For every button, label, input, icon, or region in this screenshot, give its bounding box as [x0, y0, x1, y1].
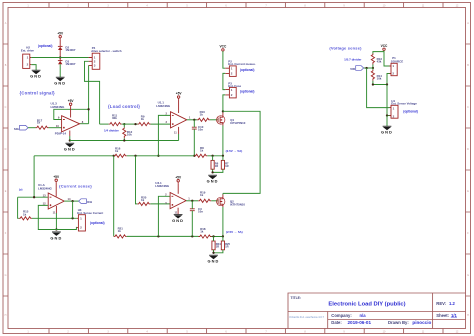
resistor R14 [371, 68, 382, 81]
junction feedback/sense line [157, 155, 159, 157]
capacitor C10 [192, 125, 204, 132]
svg-text:1k: 1k [23, 212, 27, 216]
wire drain bus to Q2 [223, 111, 260, 193]
connector H2 Ext. drive [21, 46, 34, 69]
svg-text:IXTH75N10: IXTH75N10 [230, 203, 245, 207]
ground (U1.A) [50, 232, 62, 241]
svg-text:Company:: Company: [331, 313, 351, 318]
wire U1.1 V- to ground rail [178, 134, 180, 141]
resistor R13 [371, 54, 382, 65]
pin U3.1 V+ [177, 183, 179, 194]
pin U1.3 V+ [70, 107, 72, 118]
svg-text:1R: 1R [225, 164, 228, 168]
resistor R19 [198, 191, 211, 203]
svg-text:14: 14 [68, 197, 71, 201]
wire sense line left branch to U1.A pin13 [33, 156, 35, 197]
zone numbers top [27, 4, 459, 7]
svg-text:1k: 1k [118, 229, 122, 233]
svg-text:pinoccio: pinoccio [412, 320, 431, 325]
junction R14 bottom [372, 83, 374, 85]
svg-text:Ext. Current measu.: Ext. Current measu. [228, 62, 256, 66]
svg-text:1R: 1R [216, 244, 219, 248]
svg-text:Electronic Load DIY (public): Electronic Load DIY (public) [328, 301, 405, 307]
svg-text:TITLE:: TITLE: [291, 296, 302, 300]
wire Q1 drain node [222, 111, 224, 112]
svg-text:GND: GND [172, 218, 184, 223]
resistor R17 [36, 118, 49, 129]
svg-text:Ext. Sense Current: Ext. Sense Current [77, 211, 103, 215]
ground (Q1 shunt) [207, 175, 219, 183]
pin Q1 drain [222, 113, 224, 118]
svg-text:(optional): (optional) [240, 68, 255, 72]
svg-text:1R: 1R [215, 164, 218, 168]
svg-text:LM324NG: LM324NG [38, 186, 53, 190]
wire C3 leads [191, 201, 193, 237]
svg-text:GND: GND [208, 259, 220, 264]
svg-text:+5V: +5V [53, 175, 60, 179]
svg-text:G: G [467, 274, 469, 277]
svg-text:30k: 30k [112, 116, 117, 120]
svg-text:1k: 1k [37, 121, 41, 125]
junction output/C3 [191, 200, 193, 202]
power +5V (U3.1) [175, 175, 182, 183]
border zone ticks top [49, 3, 443, 8]
junction shunt R7/source [222, 155, 224, 157]
svg-text:(2.5V → 5A): (2.5V → 5A) [226, 149, 243, 153]
svg-text:+5V: +5V [176, 92, 183, 96]
svg-text:GND: GND [207, 179, 219, 184]
svg-text:(v): (v) [19, 187, 23, 191]
svg-text:1k: 1k [141, 117, 145, 121]
transistor Q1 [217, 116, 246, 125]
pin U1.1 V+ [178, 100, 180, 113]
junction R15/output feedback [71, 217, 73, 219]
svg-text:{Control signal}: {Control signal} [20, 90, 56, 95]
junction bottom/C3 [191, 235, 193, 237]
svg-text:Sheet:: Sheet: [436, 313, 449, 318]
svg-text:(Voltage sense): (Voltage sense) [329, 46, 362, 51]
wire output to H3 pin1 level [72, 201, 74, 218]
zone numbers bottom [27, 330, 459, 333]
svg-text:VCC: VCC [381, 44, 388, 48]
wire down to R15 [18, 197, 19, 218]
svg-text:VCC: VCC [220, 44, 227, 48]
junction sense/R20 branch [134, 155, 136, 157]
TITLE BLOCK [288, 293, 466, 329]
wire Q2 source to shunt [222, 207, 224, 237]
ground (Q2 shunt) [208, 255, 220, 263]
resistor R25 [221, 241, 230, 250]
resistor R9 [138, 115, 151, 126]
global label SIG [14, 125, 28, 130]
wire C10 leads [193, 120, 195, 156]
wire Q2 drain to bus [222, 193, 224, 194]
svg-text:2019-06-01: 2019-06-01 [348, 320, 372, 325]
svg-text:(optional): (optional) [90, 221, 105, 225]
junction R8/shunt R6 [211, 155, 213, 157]
svg-text:10n: 10n [198, 128, 203, 132]
svg-text:+5V: +5V [57, 31, 64, 35]
svg-text:(optional): (optional) [38, 44, 53, 48]
diode D3 [58, 59, 76, 66]
junction Q2 shunt ground [212, 252, 214, 254]
svg-text:(2.5V → 5A): (2.5V → 5A) [226, 230, 243, 234]
svg-text:IXTH75N10: IXTH75N10 [230, 121, 245, 125]
svg-text:GND: GND [381, 130, 393, 135]
power +5V (U1.1) [176, 92, 183, 100]
wire U1.3 output [80, 123, 89, 125]
junction (feedback/selector) [87, 108, 89, 110]
capacitor C3 [190, 207, 203, 214]
junction divider node [372, 67, 374, 69]
wire Q2 shunt leads [214, 236, 223, 252]
svg-text:1/4 divider: 1/4 divider [104, 128, 120, 132]
wire ground rail [70, 140, 179, 142]
svg-text:GND: GND [30, 73, 42, 78]
junction setpoint/feedback tap [134, 123, 136, 125]
global label ICH [79, 199, 93, 204]
wire U1.A pin13 [18, 196, 48, 198]
wire H2 pin1 to P4 pin1 [31, 57, 88, 59]
wire R10 to Q1 gate [210, 119, 218, 121]
svg-text:D: D [467, 148, 469, 151]
wire +5V to D2 [59, 39, 61, 46]
pin U3.1 V- [177, 208, 179, 215]
svg-text:43k: 43k [377, 60, 382, 64]
wire R21 branch [113, 156, 115, 237]
pin U1.1 V- [178, 127, 180, 134]
wire R19 to Q2 gate [211, 200, 218, 202]
svg-text:ICH: ICH [87, 200, 92, 204]
junction output/C10 [193, 119, 195, 121]
svg-text:D: D [5, 148, 7, 151]
svg-text:Ext. Fuse: Ext. Fuse [228, 84, 241, 88]
wire VCC to divider and P1 pin1 [373, 51, 391, 67]
op-amp U1.1 [156, 100, 191, 134]
border zone ticks left [3, 44, 8, 296]
svg-text:1k: 1k [200, 148, 204, 152]
wire R20 branch [136, 156, 138, 204]
wire R20 to U3.1 pin3 [150, 203, 170, 205]
resistor R8 [194, 146, 207, 157]
resistor R10 [197, 110, 210, 121]
svg-text:C: C [467, 106, 469, 109]
connector P4 drive selector [89, 46, 122, 69]
junction VID branch [365, 67, 367, 69]
wire D2 to node [59, 50, 61, 58]
wire gnd branch down to H1 pin2 [387, 85, 390, 116]
wire shunt leads [213, 156, 223, 173]
junction [69, 139, 71, 141]
wire sense tap to H1 pin1 [367, 68, 390, 108]
wire R14 bottom to P1 pin2 [373, 74, 391, 85]
svg-text:VID: VID [350, 67, 356, 71]
resistor R18 [199, 227, 212, 238]
resistor R20 [137, 196, 150, 206]
transistor Q2 [217, 197, 246, 206]
svg-text:REV:: REV: [436, 301, 446, 306]
svg-text:(optional): (optional) [403, 110, 418, 114]
junction [59, 56, 61, 58]
power +5V (U1.A) [53, 175, 60, 183]
pin U1.A V- [55, 206, 57, 213]
resistor R7 [221, 160, 229, 169]
zone letters left [5, 22, 7, 317]
wire U1.A output [64, 200, 78, 202]
junction bottom/U3.1 feedback [157, 235, 159, 237]
junction sense/R21 [113, 155, 115, 157]
wire U1.A pin12 to gnd line to H3 pin2 [38, 205, 77, 229]
zone letters right [467, 22, 469, 317]
svg-text:10k: 10k [127, 132, 132, 136]
resistor R12 [123, 127, 133, 138]
resistor R15 [19, 210, 32, 220]
svg-text:n/a: n/a [360, 313, 367, 318]
svg-text:1k: 1k [141, 198, 145, 202]
svg-text:G: G [5, 274, 7, 277]
svg-text:drive selector - switch: drive selector - switch [91, 49, 122, 53]
wire P3 pin2 to drain node [223, 95, 225, 111]
wire sense line [34, 155, 223, 157]
wire bottom net [127, 235, 223, 237]
resistor R21 [114, 227, 127, 238]
svg-text:1N4007: 1N4007 [65, 62, 76, 66]
svg-text:11: 11 [53, 211, 56, 215]
wire VCC to P2 pin1 [223, 51, 225, 68]
power +5V (U1.3) [68, 99, 75, 107]
wire R12 leads [123, 124, 125, 140]
wire R13 to node [372, 65, 374, 69]
svg-text:1/1: 1/1 [451, 313, 457, 318]
junction R12/gnd rail [123, 139, 125, 141]
ground (H1) [381, 126, 393, 135]
pin U1.3 V- [69, 131, 71, 137]
wire P4 pin2 to R11 [85, 61, 100, 124]
svg-text:10n: 10n [198, 210, 203, 214]
op-amp U1.3 [51, 102, 84, 136]
junction R18/shunt R24 [212, 235, 214, 237]
pin Q2 drain [222, 195, 224, 199]
junction R11/R12 [123, 123, 125, 125]
resistor R24 [212, 241, 221, 250]
junction V-/gnd line [55, 228, 57, 230]
svg-text:+5V: +5V [175, 175, 182, 179]
svg-text:1.2: 1.2 [449, 301, 455, 306]
svg-text:{Current sense}: {Current sense} [59, 184, 92, 189]
svg-text:10: 10 [56, 124, 59, 128]
power +5V (drive clamp) [57, 31, 64, 39]
wire D3 to ground [59, 64, 61, 77]
wire node to VID label [364, 67, 373, 69]
wire U3.1 pin2 feedback [158, 196, 170, 236]
svg-text:H: H [5, 314, 7, 317]
wire node to D3 [59, 58, 61, 61]
junction gnd branch [386, 83, 388, 85]
wire R9 to U1.1 pin3 [151, 123, 171, 125]
svg-text:{Load control}: {Load control} [108, 104, 140, 109]
junction C10/sense line [193, 155, 195, 157]
svg-text:13: 13 [43, 193, 46, 197]
svg-text:1k: 1k [200, 229, 204, 233]
svg-text:C: C [5, 106, 7, 109]
op-amp U1.A [38, 183, 71, 214]
connector P3 Ext. Fuse [225, 81, 241, 98]
wire H2 pin2 to ground [31, 65, 36, 71]
svg-text:Drawn By:: Drawn By: [388, 320, 409, 325]
global label VID [350, 66, 363, 72]
resistor R11 [109, 113, 122, 125]
svg-text:+5V: +5V [68, 99, 75, 103]
svg-text:SIG: SIG [14, 127, 20, 131]
svg-text:1k: 1k [200, 193, 204, 197]
svg-text:1k: 1k [115, 149, 119, 153]
svg-text:GND: GND [50, 236, 62, 241]
svg-text:10k: 10k [377, 76, 382, 80]
ground (below H2) [30, 70, 42, 78]
wire to ground (H1) [386, 116, 388, 127]
connector P2 Ext. Current measu. [225, 59, 256, 76]
connector H3 Ext. Sense Current [77, 208, 103, 231]
wire P4 pin3 down to U1.3 output [88, 65, 90, 123]
power VCC (voltage sense) [381, 44, 388, 51]
svg-text:11: 11 [174, 131, 177, 135]
junction shunt ground [211, 171, 213, 173]
svg-text:1N4007: 1N4007 [65, 48, 76, 52]
svg-text:KiCad E.D.A. eeschema 4.0.7: KiCad E.D.A. eeschema 4.0.7 [290, 315, 325, 319]
wire R11 to R9 [122, 123, 138, 125]
pin Q2 source [222, 204, 224, 207]
wire R15 to H3 pin1 [32, 217, 77, 219]
svg-text:SOURCE: SOURCE [391, 59, 403, 63]
junction pin13 [33, 196, 35, 198]
wire P2 pin2 to P3 pin1 [223, 73, 225, 89]
wire SIG to R17 [28, 127, 36, 129]
border zone ticks bottom [49, 329, 443, 334]
power VCC (load input) [220, 44, 227, 51]
pin Q1 source [222, 123, 224, 126]
resistor R6 [211, 160, 219, 169]
ground (below D3) [54, 77, 66, 85]
op-amp U3.1 [155, 181, 190, 215]
border zone ticks right [466, 44, 471, 296]
wire U1.1 pin2 feedback [158, 115, 170, 155]
wire P4 branch to R11 [100, 123, 109, 125]
wire U1.A V- to gnd line [55, 213, 57, 230]
wire R17 to U1.3 pin10 [49, 127, 62, 129]
svg-text:PDIP-14: PDIP-14 [55, 132, 67, 136]
svg-text:GND: GND [64, 147, 76, 152]
wire U3.1 output [186, 200, 198, 202]
junction shunt R25/source [222, 235, 224, 237]
svg-text:1/5.7 divider: 1/5.7 divider [344, 57, 362, 61]
wire U1.3 V- to ground rail [69, 136, 71, 141]
svg-text:(optional): (optional) [240, 89, 255, 93]
svg-text:Ext. drive: Ext. drive [21, 48, 34, 52]
svg-text:LM324NG: LM324NG [155, 184, 170, 188]
svg-text:LM324NG: LM324NG [156, 104, 171, 108]
ground (U3.1) [172, 215, 184, 224]
junction drain node [222, 110, 224, 112]
connector P1 SOURCE [390, 56, 404, 75]
svg-text:H: H [467, 314, 469, 317]
junction H1 pin2/gnd [386, 114, 388, 116]
svg-text:LM324NG: LM324NG [51, 105, 66, 109]
junction output/H3 branch [71, 200, 73, 202]
wire U1.3 feedback [54, 109, 89, 119]
connector H1 Ext. Sense Voltage [390, 99, 418, 119]
pin U1.A V+ [55, 183, 57, 197]
svg-text:GND: GND [54, 81, 66, 86]
svg-text:1R: 1R [225, 244, 228, 248]
ground (U1.3) [64, 143, 76, 151]
resistor R16 [114, 146, 127, 157]
svg-text:1k: 1k [200, 113, 204, 117]
wire Q1 source to shunt [222, 126, 224, 156]
wire U1.1 output [187, 119, 197, 121]
svg-text:Date:: Date: [331, 320, 341, 325]
svg-text:Ext. Sense Voltage: Ext. Sense Voltage [391, 102, 417, 106]
diode D2 [58, 45, 76, 52]
